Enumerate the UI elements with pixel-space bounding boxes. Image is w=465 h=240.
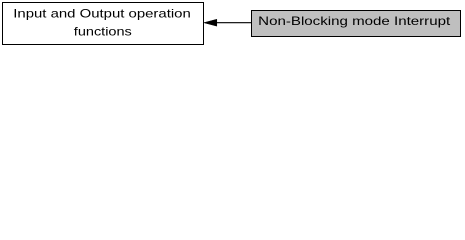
edge wire (217, 22, 252, 24)
svg-text:Input and Output operation: Input and Output operation (13, 7, 191, 21)
svg-text:functions: functions (74, 25, 132, 39)
node N2: Non-Blocking mode Interrupt (current, grey) (252, 11, 461, 37)
edge arrowhead (204, 19, 217, 26)
node N1: Input and Output operation functions (3, 3, 204, 45)
svg-text:Non-Blocking mode Interrupt: Non-Blocking mode Interrupt (258, 14, 451, 28)
